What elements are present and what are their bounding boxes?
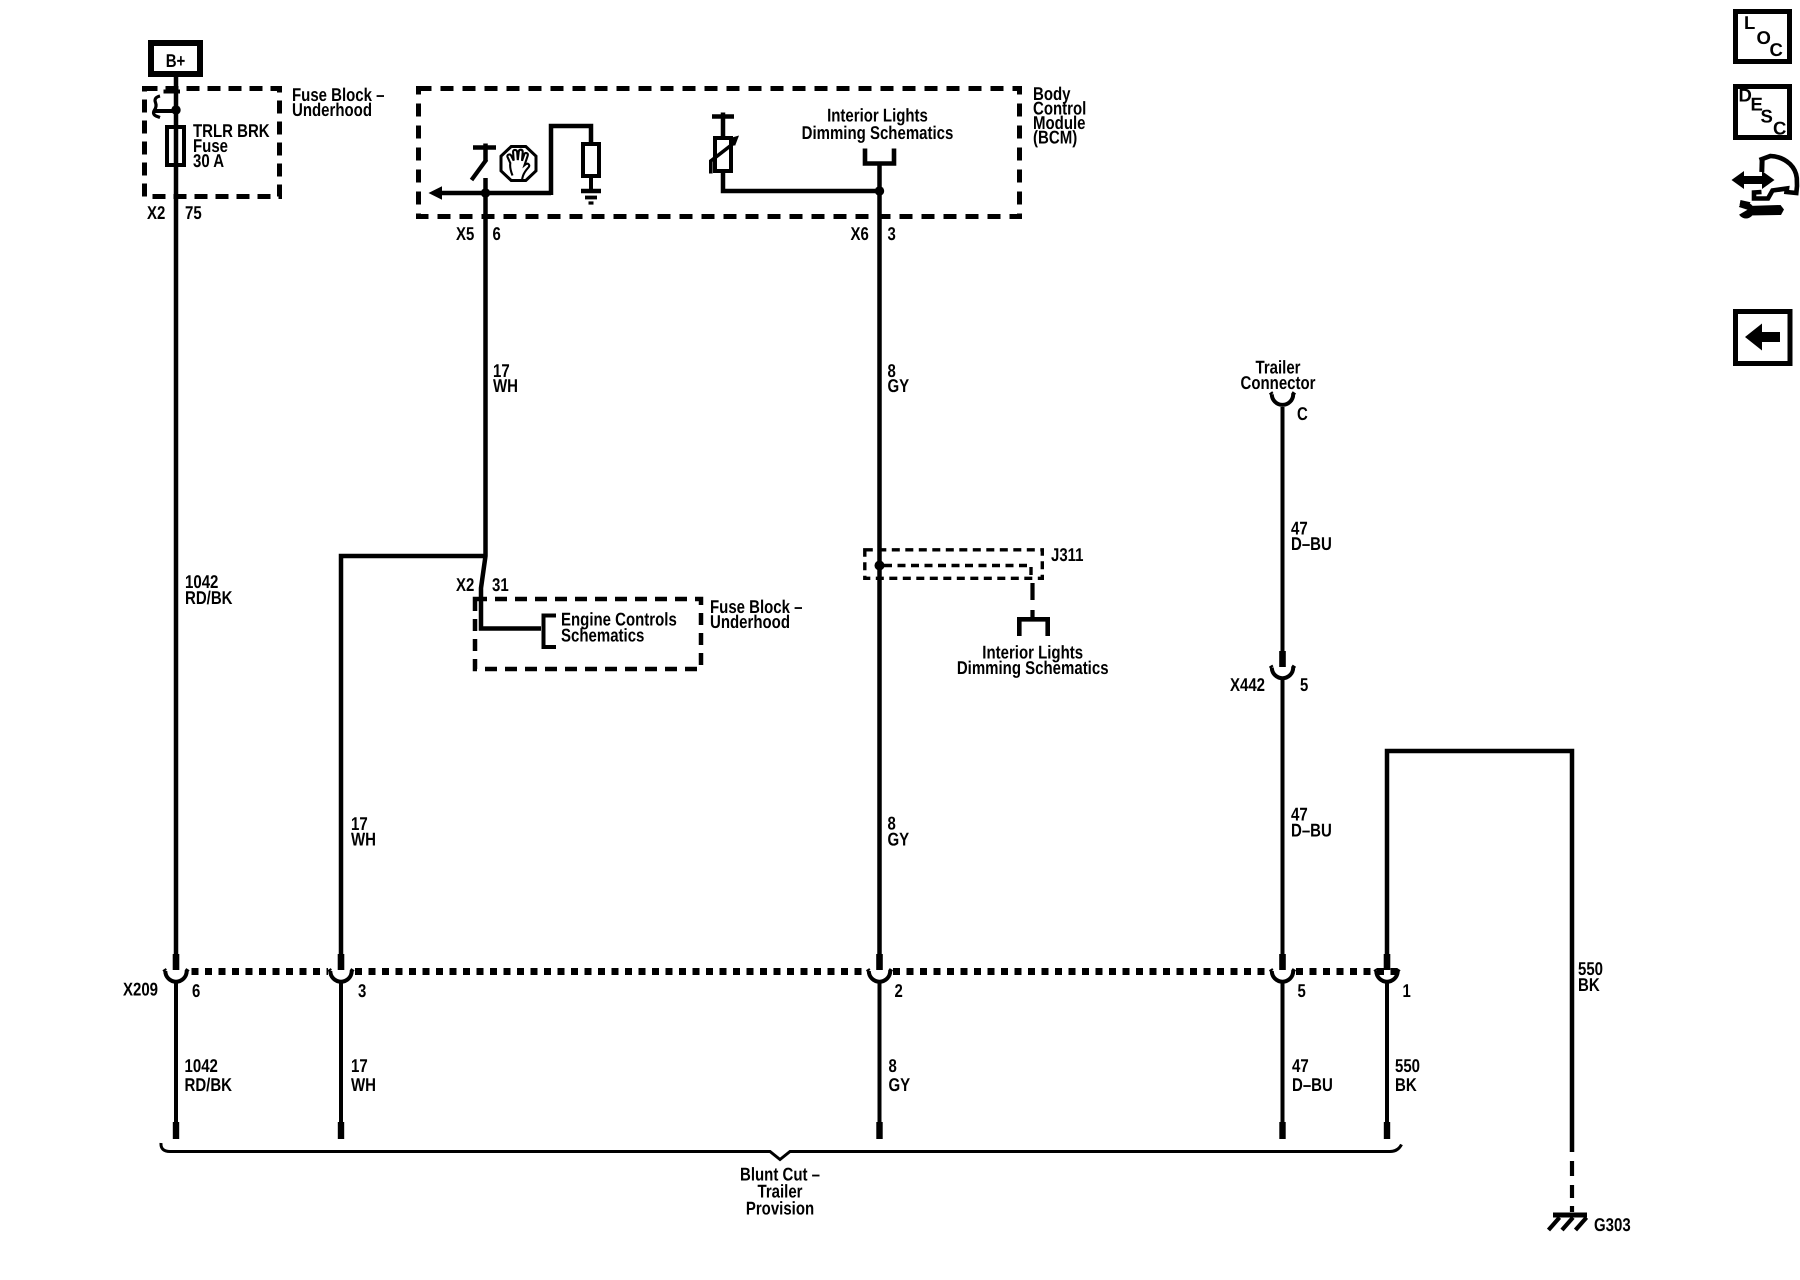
diagnostic vehicle icon [1732, 156, 1798, 219]
X209 receptacle pin 1 [1375, 969, 1399, 982]
label wire 47 D-BU upper [1291, 518, 1332, 555]
fuse block bus tap symbol [154, 96, 176, 118]
svg-text:1: 1 [1403, 980, 1411, 1001]
svg-text:RD/BK: RD/BK [185, 1074, 233, 1095]
label wire 8 GY upper [888, 360, 910, 396]
blunt cut group brace [161, 1143, 1402, 1160]
svg-text:RD/BK: RD/BK [185, 587, 233, 608]
svg-text:Dimming Schematics: Dimming Schematics [957, 657, 1109, 678]
svg-text:X5: X5 [456, 223, 474, 244]
Body Control Module dashed box [419, 89, 1020, 217]
label TRLR BRK Fuse 30 A [193, 120, 270, 171]
svg-text:Underhood: Underhood [710, 611, 790, 632]
svg-text:Dimming Schematics: Dimming Schematics [802, 122, 954, 143]
svg-text:X2: X2 [456, 574, 474, 595]
wire resistor to ground [589, 176, 593, 190]
svg-text:GY: GY [888, 829, 910, 850]
DESC navigation box [1736, 85, 1790, 139]
junction dot at fuse input [171, 105, 180, 114]
label wire 47 D-BU mid [1291, 804, 1332, 841]
svg-text:WH: WH [351, 829, 376, 850]
svg-text:BK: BK [1578, 974, 1600, 995]
svg-text:B+: B+ [166, 50, 186, 71]
label wire 17 WH mid [351, 813, 376, 850]
svg-text:5: 5 [1298, 980, 1306, 1001]
svg-text:(BCM): (BCM) [1033, 127, 1077, 148]
page link bracket Engine Controls [544, 616, 557, 648]
fuse TRLR BRK 30 A [167, 127, 184, 165]
X209 male terminal pin 5 [1279, 954, 1286, 970]
brake apply switch in BCM [472, 144, 497, 196]
svg-text:Schematics: Schematics [561, 625, 644, 646]
blunt cut wire end pin 1 [1384, 1122, 1390, 1139]
junction dot J311 [875, 561, 885, 571]
svg-text:D–BU: D–BU [1292, 1074, 1333, 1095]
blunt cut wire end pin 3 [338, 1122, 344, 1139]
BCM output connector fork [865, 149, 894, 192]
svg-text:Connector: Connector [1241, 372, 1316, 393]
J311 fork connector to dimming schematics [1019, 619, 1047, 636]
svg-text:X442: X442 [1230, 674, 1265, 695]
label connector X5 pin 6 [456, 223, 501, 244]
wire 550 BK from pin 1 up over to right leg [1387, 751, 1572, 1152]
label Engine Controls Schematics [561, 609, 677, 646]
label Blunt Cut Trailer Provision [740, 1164, 820, 1219]
svg-text:WH: WH [493, 375, 518, 396]
svg-text:X6: X6 [851, 223, 869, 244]
svg-text:6: 6 [192, 980, 200, 1001]
label connector X2 pin 75 [147, 202, 202, 223]
label connector X6 pin 3 [851, 223, 896, 244]
label wire 8 GY lower [889, 1055, 911, 1095]
connector X442 male terminal [1279, 651, 1286, 667]
label wire 550 BK right [1578, 958, 1603, 995]
wire to pull-up resistor [551, 126, 591, 195]
svg-text:X2: X2 [147, 202, 165, 223]
signal arrow to other circuits [429, 186, 443, 199]
stop lamp hand icon [501, 147, 536, 181]
svg-text:S: S [1761, 106, 1773, 127]
label wire 550 BK lower [1395, 1055, 1420, 1095]
Fuse Block Underhood dashed box [145, 89, 280, 197]
back arrow navigation box [1736, 312, 1791, 364]
label Body Control Module (BCM) [1033, 83, 1086, 148]
X209 male terminal pin 1 [1384, 954, 1391, 970]
X209 receptacle pin 6 [164, 969, 188, 982]
wire below X209 pin 5 [1281, 983, 1285, 1122]
svg-text:31: 31 [492, 574, 509, 595]
label wire 1042 RD/BK lower [185, 1055, 233, 1095]
svg-text:X209: X209 [123, 979, 158, 1000]
ground G303 [1549, 1215, 1588, 1230]
svg-text:D–BU: D–BU [1291, 820, 1332, 841]
label wire 8 GY mid [888, 813, 910, 850]
trailer connector receptacle C [1271, 392, 1295, 405]
Fuse Block Underhood dashed box lower [475, 599, 701, 669]
blunt cut wire end pin 6 [173, 1122, 179, 1139]
splice J311 dashed stem [1030, 583, 1034, 617]
wire below X209 pin 2 [878, 983, 882, 1122]
svg-text:WH: WH [351, 1074, 376, 1095]
wire 8 GY from BCM X6 to X209 [877, 191, 882, 954]
interior dimmer rheostat in BCM [711, 113, 739, 174]
svg-text:GY: GY [889, 1074, 911, 1095]
svg-text:Underhood: Underhood [292, 99, 372, 120]
X442 receptacle [1271, 666, 1295, 679]
wire 47 D-BU upper [1281, 407, 1285, 651]
svg-text:3: 3 [888, 223, 896, 244]
wire below X209 pin 1 [1385, 983, 1389, 1122]
label connector X442 pin 5 [1230, 674, 1308, 695]
svg-text:C: C [1770, 39, 1783, 60]
X209 male terminal pin 6 [173, 954, 180, 970]
svg-text:30 A: 30 A [193, 150, 224, 171]
svg-text:2: 2 [895, 980, 903, 1001]
svg-text:8: 8 [889, 1055, 897, 1076]
wire below X209 pin 6 [174, 983, 178, 1122]
svg-text:Provision: Provision [746, 1198, 814, 1219]
svg-text:75: 75 [185, 202, 202, 223]
label wire 47 D-BU lower [1292, 1055, 1333, 1095]
ground symbol in BCM [581, 191, 601, 203]
label Fuse Block Underhood [292, 84, 385, 120]
resistor in BCM [583, 144, 599, 176]
blunt cut wire end pin 5 [1279, 1122, 1285, 1139]
svg-text:J311: J311 [1051, 544, 1084, 565]
wire 1042 RD/BK from B+ fuse to X209 [174, 77, 179, 954]
junction dot switch node [481, 188, 490, 197]
X209 dotted harness bus [192, 968, 1399, 975]
svg-text:5: 5 [1300, 674, 1308, 695]
X209 male terminal pin 3 [338, 954, 345, 970]
svg-text:C: C [1773, 118, 1786, 139]
label Interior Lights Dimming Schematics (J311) [957, 642, 1109, 679]
junction dot X6 node [875, 186, 884, 195]
fuse feed bus bar terminal [164, 90, 181, 94]
svg-text:D–BU: D–BU [1291, 533, 1332, 554]
svg-text:C: C [1297, 403, 1308, 424]
svg-text:3: 3 [358, 980, 366, 1001]
svg-text:G303: G303 [1594, 1214, 1631, 1235]
svg-text:550: 550 [1395, 1055, 1420, 1076]
X209 pin number labels [192, 980, 1411, 1001]
svg-text:BK: BK [1395, 1074, 1417, 1095]
label wire 17 WH lower [351, 1055, 376, 1095]
wire 47 D-BU lower [1281, 679, 1285, 955]
label connector X2 pin 31 [456, 574, 509, 595]
wire 17 WH from BCM X5 down to fuse block [481, 195, 541, 629]
splice pack J311 dashed box [865, 550, 1043, 579]
label Interior Lights Dimming Schematics (BCM) [802, 105, 954, 144]
label Fuse Block Underhood lower [710, 596, 803, 632]
X209 receptacle pin 2 [868, 969, 892, 982]
label wire 1042 RD/BK upper [185, 571, 233, 608]
LOC navigation box [1736, 12, 1790, 62]
wire below X209 pin 3 [339, 983, 343, 1122]
svg-text:17: 17 [351, 1055, 368, 1076]
svg-text:47: 47 [1292, 1055, 1309, 1076]
X209 male terminal pin 2 [876, 954, 883, 970]
wire 17 WH branch to X209 [341, 556, 484, 954]
svg-text:L: L [1744, 12, 1755, 33]
label Trailer Connector [1241, 357, 1316, 394]
svg-text:6: 6 [493, 223, 501, 244]
wire switch node horizontal [440, 191, 551, 196]
svg-text:GY: GY [888, 375, 910, 396]
splice J311 dashed bus link [884, 566, 1031, 580]
wire rheostat to X6 node [723, 171, 880, 191]
wire 550 BK dashed segment to ground [1570, 1161, 1574, 1212]
blunt cut wire end pin 2 [876, 1122, 882, 1139]
X209 receptacle pin 5 [1271, 969, 1295, 982]
svg-text:1042: 1042 [185, 1055, 218, 1076]
label wire 17 WH upper [493, 360, 518, 396]
X209 receptacle pin 3 [329, 969, 353, 982]
power symbol B+ [151, 43, 200, 74]
